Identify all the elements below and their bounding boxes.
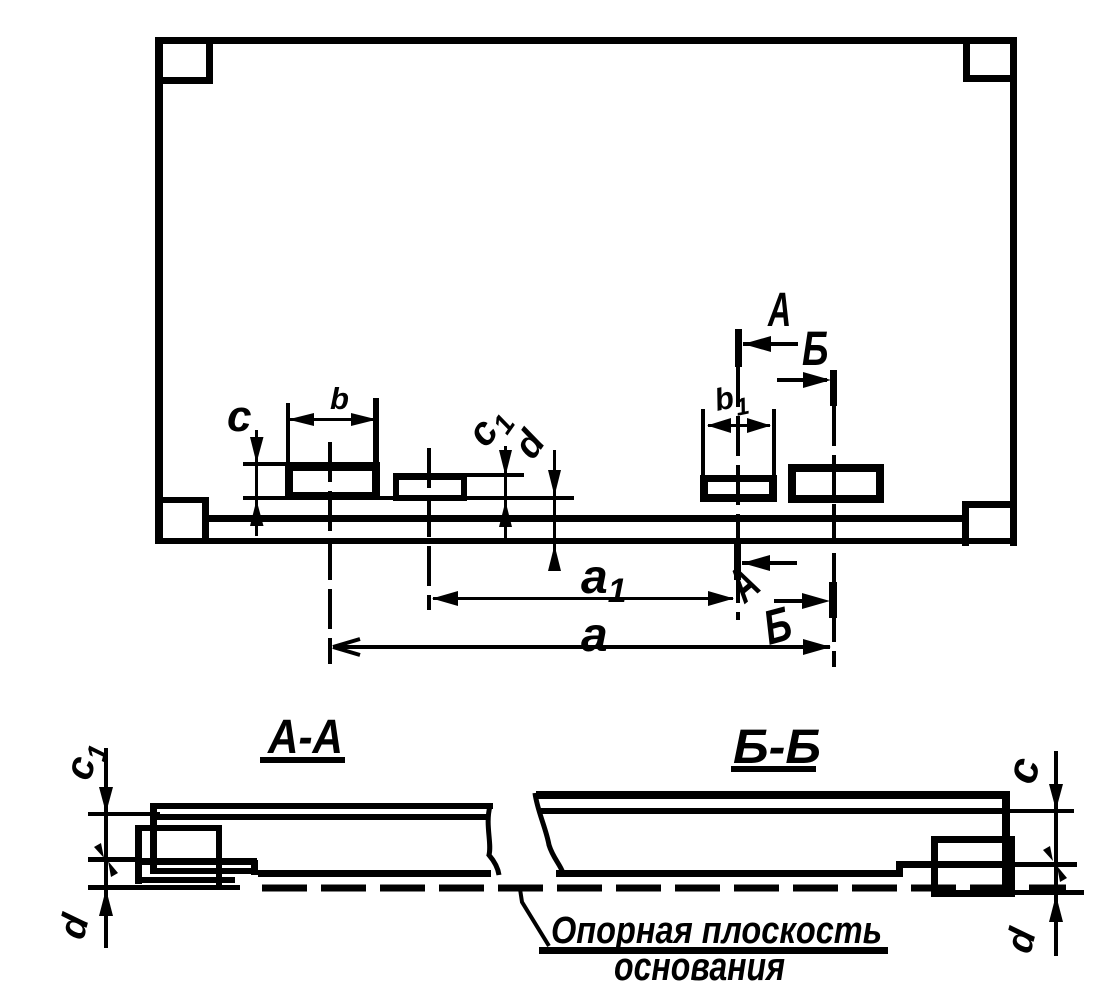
B-B left break line [535, 793, 563, 873]
section B upper tick [830, 370, 837, 406]
dimension a1 left arrow [432, 591, 458, 606]
dimension a1 right arrow [708, 591, 734, 606]
corner lug bottom-right [962, 501, 1011, 508]
dimension d lower arrow (top view) [548, 545, 561, 571]
section B upper arrow [777, 378, 827, 382]
B-B mid small up arrow [1057, 866, 1067, 882]
svg-text:основания: основания [614, 945, 785, 989]
svg-text:А-А: А-А [267, 709, 343, 763]
label B upper [802, 322, 828, 376]
A-A step level extension line [88, 857, 138, 862]
section A-A title underline [260, 757, 345, 763]
B-B label d [998, 923, 1045, 957]
A-A step jog [251, 860, 258, 875]
B-B pad top edge [931, 836, 1015, 843]
A-A slab top edge [151, 803, 493, 809]
section B-B title underline [731, 766, 816, 772]
dimension d upper arrow (top view) [548, 470, 561, 496]
dimension a1 line [433, 597, 733, 600]
A-A step line [138, 858, 257, 865]
section line A axis [736, 367, 740, 620]
section A lower arrow [742, 561, 797, 565]
dimension a left open arrow [333, 639, 360, 655]
B-B d lower arrow [1049, 895, 1063, 922]
pad 2 center line [427, 448, 431, 610]
svg-text:Б: Б [802, 322, 828, 376]
extension line L1 pad1 top level [243, 462, 380, 466]
section B-B title [733, 719, 821, 773]
A-A pad left wall [135, 825, 142, 884]
B-B dimension axis [1054, 751, 1058, 956]
dimension c lower arrow [250, 500, 264, 526]
dimension b1 right arrow [747, 418, 771, 433]
dimension a line [334, 645, 830, 649]
A-A pad top edge [135, 825, 222, 831]
pad 3 [700, 475, 777, 482]
dimension c1 axis [504, 446, 507, 542]
base plate outline bottom edge [155, 538, 1017, 544]
svg-text:a: a [581, 609, 608, 662]
A-A dimension axis [104, 748, 108, 948]
label d (top view) [506, 422, 554, 466]
section A upper arrow [743, 342, 798, 346]
pad 2 [393, 474, 467, 480]
pad 1 left extension line [286, 403, 290, 465]
B-B top extension line [1009, 809, 1074, 813]
B-B lower extension line [1014, 890, 1084, 895]
dimension a right arrow [803, 639, 831, 655]
pad 4 [788, 464, 884, 472]
A-A slab left edge [150, 803, 157, 874]
extension line L3 pad2 top level [393, 473, 524, 477]
dimension b line [290, 418, 375, 421]
B-B step jog [896, 861, 903, 877]
A-A mid small up arrow [108, 861, 118, 877]
A-A label d [51, 909, 98, 943]
label A upper [767, 282, 791, 336]
A-A d lower arrow [99, 889, 113, 916]
B-B mid extension line [1010, 862, 1077, 867]
base plate outline right edge [1010, 37, 1017, 546]
label A lower [716, 556, 769, 613]
svg-text:c: c [227, 392, 251, 441]
B-B slab right edge [1002, 791, 1010, 894]
svg-text:b: b [330, 381, 349, 416]
A-A slab bottom left segment [155, 868, 252, 874]
note underline [539, 947, 888, 954]
extension line L2 base level [243, 496, 574, 500]
base plate outline top edge [155, 37, 1017, 44]
pad 3 left extension line [701, 409, 705, 475]
svg-text:А: А [767, 282, 791, 336]
section A lower tick [734, 540, 741, 580]
A-A c1 upper arrow [99, 787, 113, 813]
B-B slab second top line [541, 808, 1009, 814]
svg-text:Б-Б: Б-Б [733, 719, 821, 773]
dimension c1 upper arrow [499, 450, 512, 476]
B-B step line [896, 861, 1010, 868]
corner lug bottom-left [157, 497, 209, 503]
B-B label c [996, 752, 1050, 788]
pad 3 right extension line [772, 409, 776, 475]
B-B pad left wall [931, 836, 938, 897]
A-A slab second top line [156, 814, 487, 820]
label b1 [711, 377, 752, 426]
pad 1 center line [328, 442, 332, 664]
dimension b1 left arrow [707, 418, 731, 433]
B-B pad right wall [1008, 836, 1015, 897]
corner lug top-right [963, 37, 970, 82]
dimension b1 line [708, 424, 770, 427]
A-A upper extension line [88, 812, 160, 816]
section B lower tick [829, 582, 837, 618]
B-B slab bottom edge [556, 870, 896, 877]
base plate outline left edge [155, 37, 163, 544]
label c1 [458, 398, 521, 458]
support plane dashed line [262, 885, 1066, 892]
A-A pad right wall [216, 827, 222, 889]
pad 1 [285, 463, 380, 471]
A-A pad bottom edge [135, 877, 235, 883]
corner lug top-left [206, 37, 213, 84]
dimension c upper arrow [250, 437, 264, 463]
B-B c upper arrow [1049, 784, 1063, 810]
A-A label c1 [56, 736, 114, 785]
B-B slab top edge [536, 791, 1006, 799]
A-A lower extension line [88, 885, 240, 890]
label B lower [758, 597, 797, 656]
section line B axis [832, 406, 836, 667]
B-B pad bottom edge [931, 890, 1015, 897]
A-A slab bottom edge [258, 870, 491, 877]
pad 1 right extension line [373, 398, 379, 465]
dimension b right arrow [351, 413, 377, 426]
section A-A title [267, 709, 343, 763]
bottom rail thick line [209, 515, 962, 522]
section B lower arrow [774, 599, 814, 603]
A-A right break line [488, 806, 499, 875]
B-B mid small down arrow [1043, 846, 1053, 861]
dimension c1 lower arrow [499, 501, 512, 527]
dimension d axis (top view) [553, 450, 556, 570]
A-A mid small down arrow [94, 843, 104, 858]
dimension b left arrow [288, 413, 314, 426]
section A upper tick [735, 329, 742, 367]
dimension c axis [255, 430, 258, 536]
leader line to support plane [520, 889, 549, 946]
